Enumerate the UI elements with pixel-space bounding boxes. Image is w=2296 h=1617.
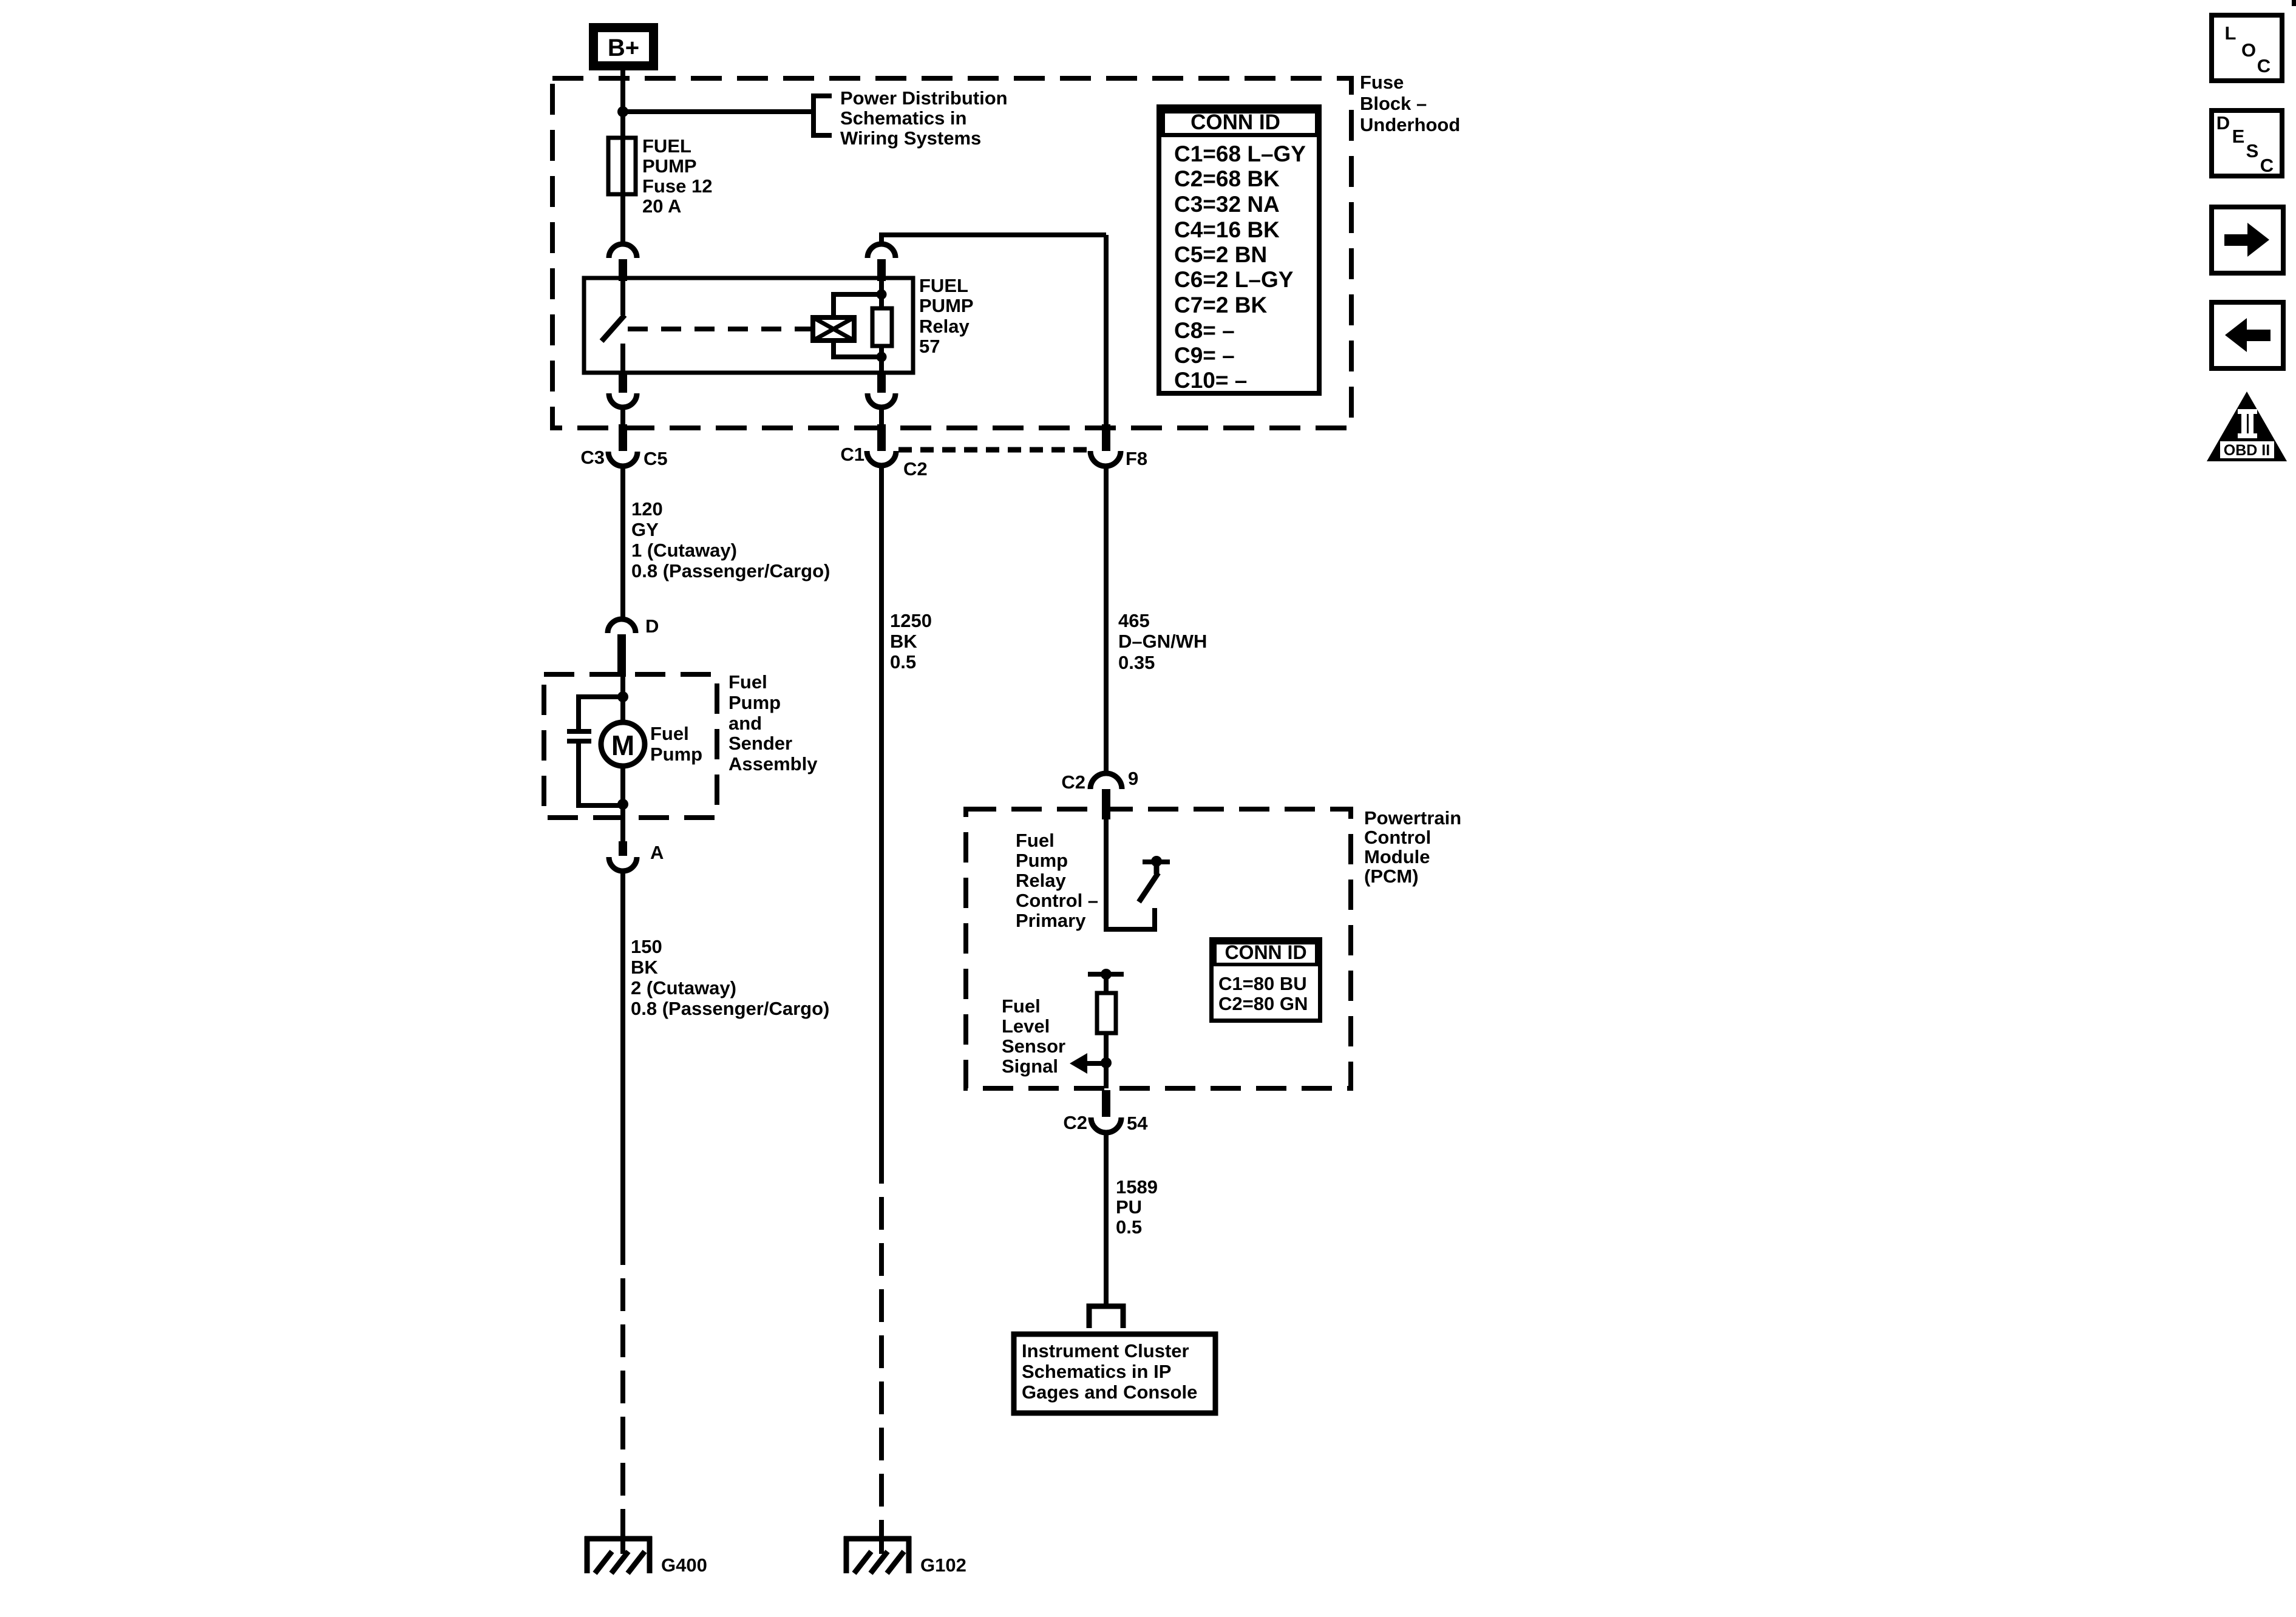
junction dot pump bottom (617, 799, 628, 810)
svg-text:C: C (2257, 55, 2271, 76)
svg-text:9: 9 (1128, 768, 1138, 789)
svg-text:Pump: Pump (650, 744, 702, 765)
svg-text:C2=80 GN: C2=80 GN (1218, 993, 1308, 1014)
svg-text:D: D (645, 615, 659, 637)
label 1250 BK 0.5 wire (890, 610, 932, 673)
stub crossing fuse block border F8 (1102, 424, 1110, 451)
svg-text:57: 57 (919, 336, 940, 357)
CONN ID table fuse block (1159, 107, 1319, 393)
svg-text:D: D (2216, 112, 2230, 134)
svg-text:Fuel: Fuel (729, 671, 767, 693)
svg-text:150: 150 (631, 936, 662, 957)
label Fuel Level Sensor Signal (1002, 995, 1065, 1077)
stub crossing PCM border bottom (1102, 1090, 1110, 1117)
svg-text:G102: G102 (920, 1554, 966, 1576)
svg-text:BK: BK (631, 957, 658, 978)
connector C2-54 arc (1091, 1117, 1121, 1133)
svg-text:465: 465 (1118, 610, 1150, 631)
svg-text:Wiring Systems: Wiring Systems (840, 127, 981, 149)
svg-text:Signal: Signal (1002, 1056, 1058, 1077)
wire C3C5 to D (620, 466, 625, 619)
relay switch lower terminal (620, 344, 625, 373)
svg-text:C1: C1 (840, 444, 864, 465)
svg-text:GY: GY (631, 519, 659, 540)
label 1589 PU 0.5 wire (1116, 1176, 1158, 1238)
svg-text:Power Distribution: Power Distribution (840, 87, 1008, 109)
label Instrument Cluster Schematics in IP Gages and Console (1022, 1340, 1197, 1403)
fuse F12 FUEL PUMP Fuse 12 20A (608, 138, 636, 245)
wire relay to F8 jog (879, 232, 1106, 427)
label Fuse Block - Underhood (1360, 72, 1460, 135)
wire C1 down solid (879, 466, 884, 1151)
wire A to ground solid (620, 871, 625, 1232)
instrument cluster reference box (1014, 1334, 1215, 1413)
wire below relay left (620, 407, 625, 427)
fuse block underhood dashed box (552, 78, 1351, 428)
svg-text:Fuel: Fuel (1002, 995, 1041, 1017)
svg-text:2 (Cutaway): 2 (Cutaway) (631, 977, 736, 998)
power node B+ (594, 28, 654, 66)
relay switch blade (602, 315, 625, 341)
svg-text:C2: C2 (903, 458, 928, 480)
svg-text:Gages and Console: Gages and Console (1022, 1381, 1197, 1403)
svg-text:D–GN/WH: D–GN/WH (1118, 631, 1207, 652)
svg-text:Fuse 12: Fuse 12 (642, 175, 712, 197)
icon forward arrow box (2212, 207, 2283, 273)
svg-text:C1=68 L–GY: C1=68 L–GY (1174, 141, 1306, 166)
svg-text:Control: Control (1364, 827, 1431, 848)
svg-text:A: A (650, 842, 664, 863)
svg-text:0.5: 0.5 (1116, 1216, 1142, 1238)
PCM driver switch pivot bar (1143, 859, 1170, 864)
svg-text:C5=2 BN: C5=2 BN (1174, 242, 1267, 267)
connector C3 C5 arc (608, 452, 637, 466)
ground G400 (585, 1536, 652, 1573)
junction dot sensor top (1101, 969, 1112, 980)
wire coil bottom lead (834, 341, 881, 357)
stub into relay right (877, 259, 886, 281)
CONN ID table PCM (1212, 940, 1320, 1021)
label Fuel Pump Relay Control - Primary (1016, 830, 1098, 931)
label Fuel Pump beside motor (650, 723, 702, 765)
connector arc below relay right (868, 393, 895, 407)
stub below relay left (619, 373, 627, 393)
svg-text:Sender: Sender (729, 733, 792, 754)
svg-text:and: and (729, 713, 762, 734)
label 150 BK wire (631, 936, 829, 1019)
connector D arc (608, 619, 636, 633)
relay resistor (872, 308, 892, 346)
svg-text:Fuel: Fuel (650, 723, 689, 744)
connector C1 C2 arc (867, 451, 896, 466)
junction dot coil bottom (877, 352, 887, 362)
svg-text:Level: Level (1002, 1015, 1050, 1037)
label FUEL PUMP Relay 57 (919, 275, 974, 357)
svg-text:C8= –: C8= – (1174, 318, 1235, 343)
junction dot switch pivot (1151, 856, 1162, 867)
connector arc relay terminal top left (609, 244, 637, 258)
svg-text:FUEL: FUEL (642, 135, 691, 157)
svg-text:CONN ID: CONN ID (1190, 110, 1280, 134)
ground G102 (844, 1536, 911, 1573)
wire below relay right (879, 407, 884, 427)
fuel pump and sender assembly dashed box (544, 674, 717, 818)
svg-text:C4=16 BK: C4=16 BK (1174, 217, 1280, 242)
label Power Distribution Schematics in Wiring Systems (840, 87, 1008, 149)
label Fuel Pump and Sender Assembly (729, 671, 818, 775)
relay switch upper terminal (620, 280, 625, 315)
stub crossing pump box bottom (619, 841, 627, 856)
relay coil symbol (813, 317, 854, 341)
icon LOC box (2212, 15, 2282, 81)
wire branch to power distribution reference (623, 109, 813, 114)
fuel level sensor T bar (1088, 972, 1124, 977)
capacitor plates (567, 729, 591, 744)
svg-text:20 A: 20 A (642, 195, 681, 217)
svg-text:C: C (2260, 155, 2274, 176)
svg-text:0.8 (Passenger/Cargo): 0.8 (Passenger/Cargo) (631, 998, 829, 1019)
relay actuation dashed line (628, 327, 813, 331)
connector arc below relay left (609, 393, 637, 407)
svg-text:Powertrain: Powertrain (1364, 807, 1461, 829)
bracket power distribution reference (813, 96, 832, 135)
stub crossing fuse block border mid (877, 424, 886, 451)
label 465 D-GN/WH 0.35 wire (1118, 610, 1207, 673)
label FUEL PUMP Fuse 12 20 A (642, 135, 712, 217)
capacitor branch bottom (579, 742, 623, 805)
wire coil top lead (834, 294, 881, 317)
wire pump bottom (620, 766, 625, 845)
svg-text:Assembly: Assembly (729, 753, 818, 775)
connector arc relay terminal top right (868, 244, 895, 258)
svg-text:Instrument Cluster: Instrument Cluster (1022, 1340, 1189, 1361)
svg-text:Pump: Pump (729, 692, 781, 713)
icon OBD II triangle (2207, 392, 2287, 461)
wire resistor to signal junction (1104, 1033, 1109, 1088)
PCM switch blade (1139, 873, 1158, 902)
relay box FUEL PUMP Relay 57 (584, 278, 913, 373)
svg-text:C7=2 BK: C7=2 BK (1174, 293, 1267, 317)
receiver bracket to instrument cluster (1089, 1306, 1123, 1328)
stub crossing fuse block border left (619, 424, 627, 451)
stub into relay left (619, 259, 627, 281)
svg-text:G400: G400 (661, 1554, 707, 1576)
svg-text:Relay: Relay (1016, 870, 1066, 891)
svg-text:B+: B+ (608, 35, 639, 61)
svg-text:Fuse: Fuse (1360, 72, 1404, 93)
svg-text:Underhood: Underhood (1360, 114, 1460, 135)
wire sensor top lead (1104, 974, 1109, 993)
wire F8 to C2-9 (1104, 466, 1109, 775)
capacitor branch top (579, 697, 623, 730)
stub into fuel pump box (617, 634, 626, 677)
fuel pump motor M (601, 722, 645, 766)
wire to G400 dashed (620, 1232, 625, 1539)
wire to G102 dashed (879, 1151, 884, 1539)
svg-text:CONN ID: CONN ID (1224, 941, 1306, 963)
svg-text:C3=32 NA: C3=32 NA (1174, 192, 1280, 217)
svg-text:Module: Module (1364, 846, 1430, 867)
svg-text:1 (Cutaway): 1 (Cutaway) (631, 540, 737, 561)
svg-text:C5: C5 (644, 448, 668, 469)
svg-text:Pump: Pump (1016, 850, 1068, 871)
connector F8 arc (1090, 451, 1121, 466)
svg-text:PUMP: PUMP (642, 155, 697, 177)
svg-text:1589: 1589 (1116, 1176, 1158, 1198)
stub below relay right (877, 373, 886, 393)
wire relay right vertical (879, 280, 884, 373)
svg-text:E: E (2232, 126, 2245, 147)
svg-text:54: 54 (1127, 1113, 1148, 1134)
dashed C2 connector line (898, 447, 1089, 453)
svg-text:C9= –: C9= – (1174, 343, 1235, 368)
svg-text:C6=2 L–GY: C6=2 L–GY (1174, 267, 1294, 292)
svg-text:C10= –: C10= – (1174, 368, 1247, 393)
icon DESC box (2212, 110, 2282, 176)
wire into pump top (620, 677, 625, 722)
svg-text:Schematics in IP: Schematics in IP (1022, 1361, 1171, 1382)
svg-text:Fuel: Fuel (1016, 830, 1055, 851)
label 120 GY wire (631, 498, 830, 581)
svg-text:0.8 (Passenger/Cargo): 0.8 (Passenger/Cargo) (631, 560, 830, 581)
svg-text:PU: PU (1116, 1196, 1142, 1218)
svg-text:Schematics in: Schematics in (840, 107, 966, 129)
stub crossing PCM border top (1102, 789, 1110, 819)
svg-text:S: S (2246, 140, 2259, 161)
svg-text:C3: C3 (580, 447, 605, 468)
wire C2-54 down (1104, 1133, 1109, 1306)
svg-text:Block –: Block – (1360, 93, 1427, 114)
svg-text:C2: C2 (1061, 771, 1085, 793)
svg-text:Control –: Control – (1016, 890, 1098, 911)
PCM dashed box (966, 809, 1351, 1088)
svg-text:(PCM): (PCM) (1364, 866, 1419, 887)
switch pivot stub (1154, 862, 1160, 874)
svg-text:PUMP: PUMP (919, 295, 974, 316)
connector C2-9 arc (1090, 773, 1122, 789)
svg-text:C2=68 BK: C2=68 BK (1174, 166, 1280, 191)
svg-text:0.5: 0.5 (890, 651, 916, 673)
scan artifact top right (2292, 0, 2296, 6)
svg-text:C2: C2 (1063, 1112, 1087, 1133)
label Powertrain Control Module (PCM) (1364, 807, 1461, 887)
junction dot signal tap (1101, 1057, 1112, 1068)
signal arrowhead (1070, 1053, 1087, 1074)
junction dot pump top (617, 691, 628, 702)
svg-text:Primary: Primary (1016, 910, 1086, 931)
svg-text:BK: BK (890, 631, 917, 652)
wire into PCM switch (1106, 819, 1155, 929)
svg-text:M: M (611, 730, 634, 761)
svg-text:Relay: Relay (919, 316, 970, 337)
connector A arc (609, 857, 637, 871)
svg-text:0.35: 0.35 (1118, 652, 1155, 673)
junction dot coil top (877, 290, 887, 300)
svg-text:O: O (2241, 39, 2256, 61)
fuel level sensor resistor (1097, 993, 1116, 1033)
svg-text:C1=80 BU: C1=80 BU (1218, 973, 1307, 994)
svg-text:Sensor: Sensor (1002, 1036, 1065, 1057)
svg-text:L: L (2225, 22, 2237, 44)
svg-text:120: 120 (631, 498, 663, 520)
signal arrow wire (1086, 1061, 1106, 1066)
icon back arrow box (2212, 302, 2283, 368)
svg-text:FUEL: FUEL (919, 275, 968, 296)
svg-text:OBD II: OBD II (2224, 442, 2270, 459)
wire B+ to fuse F12 (620, 68, 625, 140)
svg-text:F8: F8 (1126, 448, 1147, 469)
svg-text:1250: 1250 (890, 610, 932, 631)
junction dot at B+ feed (617, 106, 628, 117)
